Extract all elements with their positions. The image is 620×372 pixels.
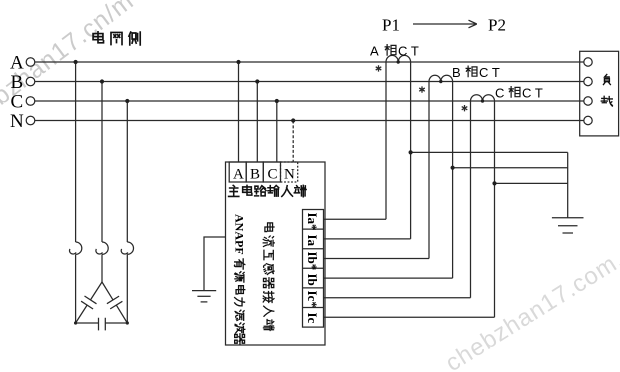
junction node CT A ground branch bbox=[409, 150, 413, 154]
svg-text:B: B bbox=[11, 72, 24, 93]
CT A secondary lead left (to Ia*) bbox=[385, 62, 387, 219]
svg-text:B: B bbox=[452, 65, 461, 80]
label 有源电力滤波器 (active power filter, rotated) bbox=[234, 259, 244, 344]
CT C primary winding bumps bbox=[471, 95, 495, 101]
svg-text:B: B bbox=[250, 167, 260, 183]
wire terminal Ia* to CT A bbox=[324, 218, 387, 220]
CT C secondary lead left (to Ic*) bbox=[470, 101, 472, 298]
ground right: stroke 1 bbox=[552, 217, 584, 219]
filter box U1 outline bbox=[226, 162, 326, 345]
wire drop B to breaker QF2 bbox=[101, 82, 103, 243]
svg-text:P2: P2 bbox=[488, 16, 506, 35]
wire drop C to filter input bbox=[276, 101, 278, 162]
label 主电路输入端 (main circuit input) bbox=[229, 185, 307, 196]
CT A center junction bbox=[397, 60, 400, 63]
source terminal C bbox=[26, 97, 35, 106]
ground right: stroke 2 bbox=[558, 225, 578, 227]
CT B primary winding bumps bbox=[429, 75, 453, 81]
source terminal A bbox=[26, 58, 35, 67]
breaker QF1 bbox=[70, 242, 82, 254]
svg-text:P1: P1 bbox=[382, 16, 400, 35]
input terminal cell N (dashed) bbox=[281, 162, 298, 182]
wire terminal Ib* to CT B bbox=[324, 258, 430, 260]
CT terminal strip outline bbox=[303, 210, 324, 328]
junction node N filter drop bbox=[291, 118, 295, 122]
capacitor bank delta: left side capacitor C1 bbox=[76, 282, 102, 323]
wire CT B ground branch bbox=[453, 167, 568, 169]
wire drop C to breaker QF3 bbox=[126, 101, 128, 242]
junction node C filter drop bbox=[275, 99, 279, 103]
svg-text:ANAPF: ANAPF bbox=[232, 214, 246, 255]
wire terminal Ia to CT A bbox=[324, 238, 411, 240]
load terminal circle N bbox=[584, 116, 592, 124]
junction node B filter drop bbox=[255, 79, 259, 83]
CT B center junction bbox=[439, 80, 442, 83]
junction node delta right corner bbox=[126, 321, 129, 324]
label 电流互感器接入端 (CT access side, rotated) bbox=[263, 223, 274, 331]
wire breaker QF1 to capacitor corner bbox=[75, 254, 77, 323]
svg-text:C: C bbox=[268, 167, 278, 183]
label 负载 (load, vertical) bbox=[601, 74, 612, 106]
ground left: stroke 3 bbox=[201, 301, 208, 303]
svg-text:Ic*: Ic* bbox=[305, 291, 320, 308]
input terminal cell B bbox=[246, 162, 263, 182]
capacitor bank delta: bottom capacitor C3 bbox=[76, 318, 128, 331]
svg-text:A: A bbox=[10, 53, 24, 74]
input terminal cell A bbox=[229, 162, 246, 182]
ground left: stroke 2 bbox=[197, 295, 210, 297]
wire bus B bbox=[35, 81, 584, 83]
svg-text:Ia*: Ia* bbox=[305, 213, 320, 231]
svg-text:A: A bbox=[370, 44, 379, 59]
svg-text:Ib: Ib bbox=[305, 274, 320, 286]
svg-text:Ia: Ia bbox=[305, 235, 320, 247]
svg-text:CT: CT bbox=[398, 44, 422, 59]
CT A primary winding bumps bbox=[386, 55, 411, 62]
wire bus C bbox=[35, 100, 584, 102]
polarity asterisk CT B bbox=[419, 86, 425, 92]
CT terminal cell dividers bbox=[303, 229, 324, 307]
wire drop N to filter input (dashed) bbox=[292, 121, 294, 163]
wire terminal Ib to CT B bbox=[324, 277, 453, 279]
source terminal N bbox=[26, 116, 35, 125]
CT B secondary lead right (to Ib) bbox=[452, 82, 454, 279]
svg-text:N: N bbox=[284, 167, 295, 183]
wire bus A bbox=[35, 61, 584, 63]
CT C secondary lead right (to Ic) bbox=[494, 101, 496, 317]
svg-text:N: N bbox=[10, 111, 24, 132]
junction node CT B ground branch bbox=[451, 166, 455, 170]
svg-text:CT: CT bbox=[479, 65, 503, 80]
wire breaker QF3 to capacitor corner bbox=[126, 254, 128, 323]
load terminal circle B bbox=[584, 77, 592, 85]
source terminal B bbox=[26, 77, 35, 86]
wire CT C ground branch bbox=[495, 182, 568, 184]
junction node delta left corner bbox=[74, 321, 77, 324]
capacitor bank delta: right side capacitor C2 bbox=[102, 282, 127, 323]
load terminal circle C bbox=[584, 97, 592, 105]
junction node A drop bbox=[74, 60, 78, 64]
P1 to P2 direction arrow bbox=[413, 20, 477, 28]
wire common ground drop bbox=[567, 152, 569, 217]
svg-text:C: C bbox=[495, 86, 504, 101]
load box outline bbox=[580, 51, 619, 136]
wire drop B to filter input bbox=[256, 82, 258, 163]
svg-text:Ic: Ic bbox=[305, 313, 320, 324]
input terminal cell C bbox=[263, 162, 280, 182]
wire terminal Ic to CT C bbox=[324, 316, 495, 318]
load terminal circle A bbox=[584, 58, 592, 66]
junction node C drop bbox=[125, 99, 129, 103]
label 电网侧 (grid side) bbox=[93, 32, 140, 45]
wire terminal Ic* to CT C bbox=[324, 297, 471, 299]
polarity asterisk CT A bbox=[376, 65, 382, 71]
wire drop A to filter input bbox=[238, 62, 240, 162]
wire CT A ground branch bbox=[411, 151, 568, 153]
wire breaker QF2 to capacitor apex bbox=[101, 254, 103, 282]
svg-text:C: C bbox=[11, 92, 24, 113]
wire filter enclosure to left ground bbox=[204, 237, 226, 291]
junction node CT C ground branch bbox=[492, 181, 496, 185]
wire drop A to breaker QF1 bbox=[75, 62, 77, 242]
CT B secondary lead left (to Ib*) bbox=[428, 82, 430, 259]
CT A secondary lead right (to Ia) bbox=[410, 62, 412, 239]
ground left: stroke 1 bbox=[192, 290, 216, 292]
wire bus N bbox=[35, 120, 584, 122]
junction node B drop bbox=[100, 79, 104, 83]
svg-text:CT: CT bbox=[522, 86, 546, 101]
ground right: stroke 3 bbox=[563, 232, 574, 234]
breaker QF3 bbox=[121, 242, 133, 254]
breaker QF2 bbox=[96, 242, 108, 254]
junction node A filter drop bbox=[236, 60, 240, 64]
polarity asterisk CT C bbox=[462, 105, 468, 111]
svg-text:A: A bbox=[233, 167, 244, 183]
svg-text:Ib*: Ib* bbox=[305, 252, 320, 271]
CT C center junction bbox=[481, 99, 484, 102]
